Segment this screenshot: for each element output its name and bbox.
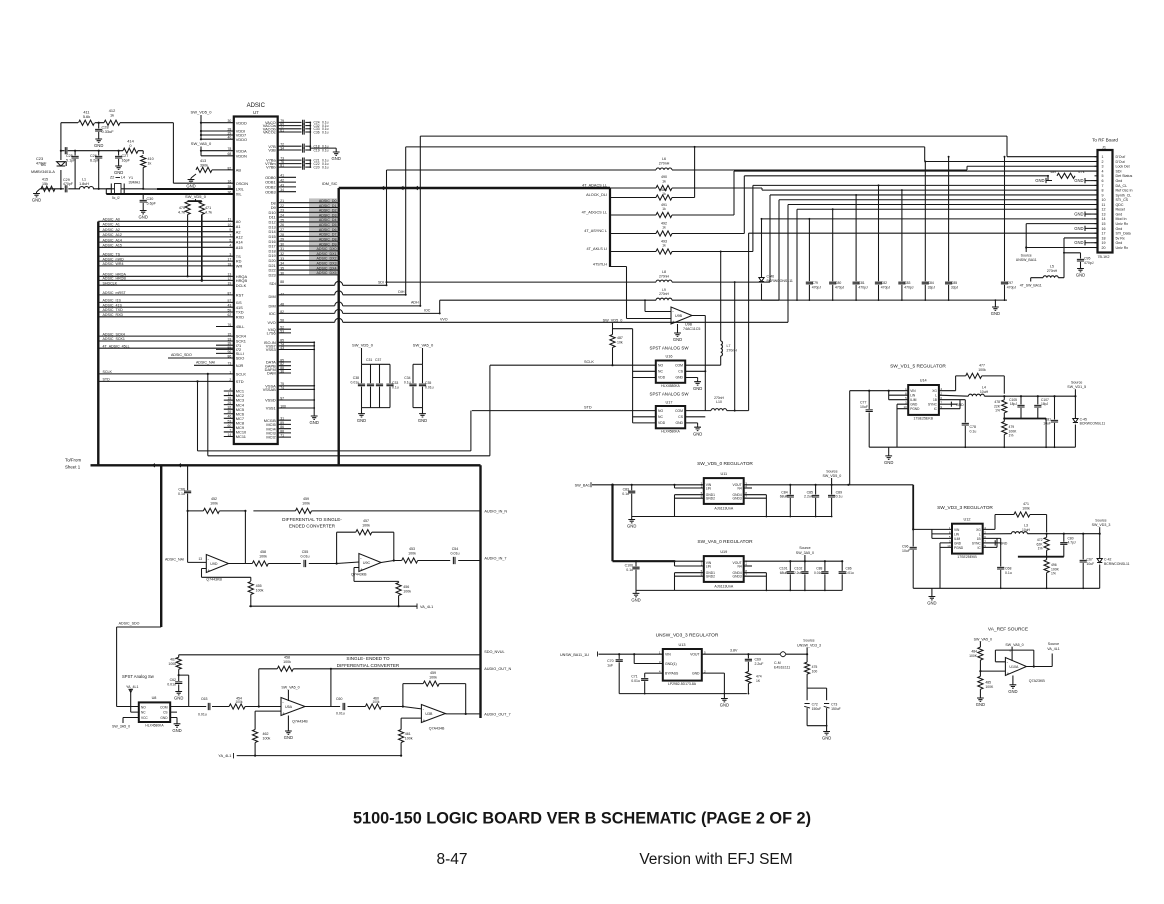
svg-text:GND: GND [332,156,341,161]
svg-text:D23: D23 [269,272,276,277]
row AUDIO_OUT_N with R458b [259,668,481,670]
ic U13 LP2982 [663,649,702,681]
U14 bottom ground rail [869,446,1075,448]
svg-text:6.2pF: 6.2pF [90,159,100,163]
svg-text:DIFFERENTIAL CONVERTER: DIFFERENTIAL CONVERTER [337,663,400,668]
bypass caps C18 C19 on V7B pins [278,145,302,147]
svg-text:GND2: GND2 [706,575,715,579]
svg-text:GND: GND [172,728,181,733]
capacitor C26 6.2pF [98,150,100,152]
vertical from U5A output junction to AUDIO_OUT_N row [330,669,332,707]
svg-text:NC: NC [658,415,663,419]
svg-text:A15: A15 [236,245,243,250]
capacitor C27 16pF to ground [118,150,120,152]
opamp U9D [188,561,207,563]
ground cap bank 1 [358,408,365,417]
capacitor C83 0.1uF input [631,485,633,491]
bus vertical to audio converters thick [160,465,162,627]
svg-text:8: 8 [1102,189,1104,193]
svg-text:GND: GND [693,431,702,436]
svg-text:HLX4580KA: HLX4580KA [145,724,164,728]
svg-text:0.1u: 0.1u [1005,571,1012,575]
svg-text:DIH: DIH [398,290,405,294]
U19 left pin ties [675,561,704,590]
svg-text:NO: NO [141,705,146,709]
capacitor C62 0.01uF [178,674,180,682]
svg-text:CS: CS [678,415,683,419]
divider R472 62k 1% [1046,533,1048,535]
svg-text:2.2uF: 2.2uF [804,495,813,499]
svg-text:0.01u: 0.01u [631,679,640,683]
svg-text:GND: GND [822,736,831,741]
svg-text:VSSD: VSSD [265,398,276,403]
inductor L7 270nH vertical [720,330,722,341]
svg-text:ADSIC_NAI: ADSIC_NAI [165,558,184,562]
svg-text:100k: 100k [210,501,218,505]
svg-text:0.1u: 0.1u [836,495,843,499]
svg-text:1uF: 1uF [607,663,613,667]
svg-text:GND: GND [1074,240,1083,245]
svg-text:0.1u: 0.1u [322,130,329,134]
bypass caps C24 C32 C33 C36 on VACO pins [278,121,302,123]
pin15 Univ Rx wire to source UNSW_BA11 [1026,224,1097,252]
svg-text:470pJ: 470pJ [904,286,914,290]
svg-text:C31: C31 [366,358,372,362]
wire XIL row thick [106,193,234,195]
sync pin gnd [939,403,952,405]
vertical from input junction to AUDIO_OUT_N row [258,669,260,707]
SCLK STD route to analog switches [198,365,490,456]
U3B plus input to R461 [401,718,421,729]
svg-text:100k: 100k [302,501,310,505]
svg-text:SYNC: SYNC [972,541,982,545]
opamp U5A [281,698,305,716]
resistor R493 1k on AKLS row to pin7 [610,251,656,253]
svg-text:ODB3: ODB3 [265,189,276,194]
svg-text:U10A: U10A [1009,665,1019,669]
svg-text:45LL: 45LL [236,324,245,329]
svg-text:AUDIO_IN_N: AUDIO_IN_N [484,509,507,513]
svg-text:PGND: PGND [910,407,920,411]
bus vertical right audio thick [479,465,481,718]
resistor R414 0 ohm [123,148,138,153]
resistor R485 100k [979,670,981,672]
svg-text:U9B: U9B [675,314,683,318]
svg-text:1k: 1k [662,244,666,248]
svg-text:413: 413 [200,159,206,163]
svg-text:QDC: QDC [1116,203,1124,207]
ground U12 rail [931,588,933,594]
svg-text:+: + [360,567,363,572]
svg-text:VSS1: VSS1 [266,406,276,411]
svg-text:ADSIC_NAI: ADSIC_NAI [196,361,215,365]
row ADSIC_NAI [194,364,234,366]
svg-text:100K: 100K [969,654,978,658]
svg-text:ADSIC: ADSIC [247,103,266,109]
resistor R460 100k [365,704,381,709]
data bus vertical thick [338,188,340,465]
ground cap bank 2 [419,408,426,417]
svg-text:13: 13 [198,557,202,561]
svg-text:487: 487 [617,336,623,340]
svg-text:10uH: 10uH [980,390,989,394]
svg-text:Q7443KB: Q7443KB [206,578,222,582]
svg-text:DA_CL: DA_CL [1116,184,1128,188]
wire ADSIC_SDO from bus to U8 [117,627,162,707]
svg-text:VACOc: VACOc [263,130,276,135]
svg-text:LIN: LIN [706,564,712,568]
U12 left pin ties [932,529,952,588]
capacitor C60 0.01uF [343,703,345,710]
left address bus vertical [97,222,99,466]
svg-text:C37: C37 [375,358,381,362]
capacitor C97 470pJ [1004,157,1006,282]
svg-text:RXD: RXD [236,314,244,319]
svg-text:1k: 1k [662,180,666,184]
svg-text:GND: GND [310,420,319,425]
wire SW_BA1 to U11 [592,484,704,486]
svg-text:GND: GND [284,735,293,740]
svg-text:100k: 100k [259,554,267,558]
svg-text:VOUT: VOUT [690,653,699,657]
svg-text:SW_3A5_0: SW_3A5_0 [796,551,814,555]
svg-text:2.2uF: 2.2uF [755,662,764,666]
svg-text:GND: GND [94,143,103,148]
svg-text:10uF: 10uF [860,405,868,409]
svg-text:NC: NC [141,711,146,715]
stubs V4Q L7S6 [278,329,291,333]
svg-text:L7: L7 [727,344,731,348]
svg-text:VIN: VIN [665,653,671,657]
svg-text:Lock Det: Lock Det [1116,165,1130,169]
wire UNSW input [599,653,663,655]
svg-text:L: L [979,532,981,536]
capacitor C81 470pJ [855,195,857,281]
svg-text:NJR: NJR [236,363,244,368]
capacitor C54 0.01uF [453,557,455,564]
svg-text:V3B: V3B [268,148,276,153]
svg-text:DIM: DIM [269,304,276,309]
virtual ground rail VA_4L1 lower [237,755,401,757]
resistor R462 100k to rail [253,730,258,743]
svg-text:SCLK: SCLK [236,372,247,377]
svg-text:VIN: VIN [910,389,916,393]
svg-text:100k: 100k [408,551,416,555]
svg-text:270nH: 270nH [727,349,738,353]
capacitor C68 0.1uF [997,567,1004,569]
wire from L8 row down to U17 COM row [734,282,736,411]
inductor L5 270nH [1043,276,1058,278]
capacitor C77 10uF input [868,391,870,409]
svg-text:18: 18 [1102,236,1106,240]
svg-text:0.1u: 0.1u [970,429,977,433]
row 4TSTLH to opamp U9B input [610,267,671,319]
svg-text:Univ Rx: Univ Rx [1116,222,1129,226]
svg-text:VVO: VVO [440,317,448,321]
U19 right GND pins to rail [744,573,767,591]
svg-text:100k: 100k [236,700,243,704]
svg-text:SW_VD5_0: SW_VD5_0 [823,474,842,478]
svg-text:BCRWCONSL11: BCRWCONSL11 [767,279,793,283]
capacitor C23 470pF series [65,147,67,154]
svg-text:VSS3: VSS3 [266,347,276,352]
svg-text:LIN: LIN [706,486,712,490]
svg-text:1k: 1k [148,162,152,166]
svg-text:STI_CS: STI_CS [1116,198,1129,202]
svg-text:270nH: 270nH [1047,269,1058,273]
svg-text:+: + [282,711,285,716]
svg-text:C83: C83 [623,488,629,492]
svg-text:C36: C36 [314,130,320,134]
pin18 5vRx path via L5 [1058,238,1097,278]
svg-text:Gnd: Gnd [1116,212,1123,216]
divider mid rail thick [1004,418,1046,420]
svg-text:4T_SW_BA11: 4T_SW_BA11 [1020,284,1042,288]
svg-text:C27: C27 [122,154,129,158]
capacitor C102 2.2uF [804,561,806,571]
svg-text:1.8uH: 1.8uH [79,182,89,186]
signal block vertical thick [609,188,611,267]
capacitor C71 0.01uF bypass [645,673,663,678]
U8 right CS GND [170,712,177,722]
ground stub pin16 [1085,226,1091,231]
svg-text:LP2982-5D173-8A: LP2982-5D173-8A [668,682,697,686]
svg-text:16pF: 16pF [122,159,131,163]
resistor R488 1k on ALOCK row jog to pin2 [610,197,656,199]
svg-text:LIN: LIN [954,532,960,536]
svg-text:10uF: 10uF [1043,422,1051,426]
svg-text:N4: N4 [737,564,741,568]
svg-text:U12: U12 [964,517,971,521]
svg-text:GND: GND [418,418,427,423]
svg-text:12: 12 [1102,208,1106,212]
svg-text:Q7A23KB: Q7A23KB [1029,679,1046,683]
svg-text:0.1u: 0.1u [178,492,185,496]
svg-text:5c_i2: 5c_i2 [112,196,120,200]
row SDO_NVUL feedback top [179,654,481,656]
svg-text:0.01u: 0.01u [336,712,345,716]
svg-text:VDD: VDD [658,376,666,380]
svg-text:WR: WR [236,264,243,269]
svg-text:ILIM: ILIM [910,398,917,402]
svg-text:100K: 100K [985,685,994,689]
svg-text:3: 3 [1102,165,1104,169]
svg-text:L1: L1 [82,178,86,182]
svg-text:18pJ: 18pJ [1010,402,1018,406]
audio in N row with R452 R459 [188,510,481,512]
svg-text:C100: C100 [625,564,633,568]
U10A feedback loop [995,650,1033,666]
wire top row oscillator [61,123,234,184]
svg-text:10k: 10k [617,341,623,345]
svg-text:4T_ADGCS LL: 4T_ADGCS LL [582,211,607,215]
svg-text:YA_4L1: YA_4L1 [218,754,231,758]
row VVO long to pin11 [278,321,335,323]
svg-text:L4: L4 [121,176,125,180]
capacitor C86 0.01uF [841,561,843,571]
U14 1B IC pins to C78 [939,400,965,423]
svg-text:10uF: 10uF [1087,562,1095,566]
capacitor C88 0.01uF [824,561,826,571]
opamp U9B minus input wire from L9 row [645,300,671,311]
capacitor C82 470pJ [878,185,880,281]
svg-text:Univ Rx: Univ Rx [1116,246,1129,250]
wire VD1_5 input [850,390,909,392]
svg-text:SW_VD1_5: SW_VD1_5 [1067,385,1086,389]
svg-text:UNSW_VD3_3: UNSW_VD3_3 [797,643,821,647]
row L6 270nH to connector pin3 [387,166,1098,170]
resistor R489 4.7k on pin5 with ground tap [1057,173,1075,178]
svg-text:CS: CS [678,370,683,374]
svg-text:SW_VA5_0: SW_VA5_0 [191,141,212,146]
svg-text:GND: GND [910,403,918,407]
svg-text:GND: GND [720,703,729,708]
divider R479 100k 1% [1003,419,1005,422]
feedback row R459b over U3B [403,684,466,714]
svg-text:U9B: U9B [685,323,693,327]
svg-text:GND: GND [954,541,962,545]
svg-text:4.7k: 4.7k [1078,170,1085,174]
svg-text:270nH: 270nH [659,292,669,296]
svg-text:+: + [1007,671,1010,676]
wire VD3_3 input from VD5_0 source [848,484,913,486]
ground rail U19 [636,589,842,591]
capacitor C96 10uF input [912,529,914,546]
U17 COM via L10 270nH [685,410,711,412]
svg-text:68uF: 68uF [780,571,788,575]
svg-text:To/From: To/From [65,458,81,463]
opamp U9C [359,554,381,572]
svg-text:471: 471 [205,206,211,210]
svg-text:Y1: Y1 [129,176,134,180]
capacitor C55 0.01uF [304,560,306,567]
svg-text:ADSIC_SDO: ADSIC_SDO [119,622,140,626]
svg-text:U3B: U3B [425,712,433,716]
svg-text:5v Rx: 5v Rx [1116,236,1125,240]
svg-text:GND: GND [1074,212,1083,217]
decoupling capacitor rail [762,299,1008,301]
row STD into U17 [472,410,656,412]
svg-text:VA_4L1: VA_4L1 [420,605,433,609]
resistor R413 390k to AB pin [191,174,196,178]
svg-text:470pJ: 470pJ [858,286,868,290]
capacitor C67 10uF output [1082,533,1084,535]
divider mid rail thick U12 [1018,556,1064,558]
svg-text:17: 17 [1102,232,1106,236]
svg-text:0.01u: 0.01u [301,554,310,558]
svg-text:SW_VA5_0: SW_VA5_0 [1005,643,1023,647]
ground U14 rail [888,447,890,454]
svg-text:U7: U7 [253,110,259,115]
svg-text:ADH: ADH [411,301,419,305]
U11 right GND pins to rail [744,495,767,517]
svg-text:UNSW_BA11_1LI: UNSW_BA11_1LI [560,653,589,657]
ground C72 C73 [826,726,828,730]
cap bank C34 C35 [413,363,423,365]
sheet 1 interconnect bus thick [91,464,481,466]
svg-text:GND3: GND3 [733,575,742,579]
svg-text:100k: 100k [405,736,413,740]
svg-text:MC11: MC11 [236,434,246,439]
svg-text:8-47: 8-47 [436,851,467,868]
svg-text:C20: C20 [314,165,320,169]
ground R485 [977,697,984,702]
row IOC from U7 up to L9 row [278,312,335,314]
row mod-in pin14 [762,218,1098,220]
ground U5A [287,716,289,730]
row ADSIC_SDO [168,357,234,359]
svg-text:SW_BA1: SW_BA1 [575,483,590,487]
wire SW_BA1 thick down to VA5_0 [611,485,613,561]
svg-text:17SE25EKB: 17SE25EKB [957,555,977,559]
svg-text:4T_ASYNC L: 4T_ASYNC L [584,229,607,233]
svg-text:5: 5 [1102,174,1104,178]
svg-text:VDDN: VDDN [236,153,247,158]
svg-text:2.2uF: 2.2uF [794,571,802,575]
U17 NC VDD wires [633,378,656,423]
resistor R415 15k [41,186,55,191]
svg-text:489: 489 [1050,170,1056,174]
svg-text:0.01u: 0.01u [425,385,434,389]
svg-text:GND(1): GND(1) [665,662,677,666]
svg-text:AB: AB [236,168,242,173]
svg-text:VA_4L1: VA_4L1 [1047,647,1060,651]
svg-text:NO: NO [658,364,663,368]
svg-text:5.6pF: 5.6pF [147,202,157,206]
top row 2 to connector pin2 [406,147,1098,162]
wire crystal to XIL [106,189,111,194]
capacitor C66 0.1uF from bus [187,465,189,490]
ic U14 17SE25EKB [908,385,939,415]
ic U19 AJS113UnA [704,556,744,582]
svg-text:DIM: DIM [269,294,276,299]
capacitor C28 0.33uF [98,122,100,124]
svg-text:10: 10 [1102,198,1106,202]
svg-text:470pJ: 470pJ [835,286,845,290]
svg-text:NO: NO [658,409,663,413]
svg-text:6: 6 [1102,179,1104,183]
svg-text:1%: 1% [995,409,1000,413]
svg-text:SDI: SDI [1116,169,1122,173]
svg-text:470pF: 470pF [36,162,47,166]
bus entry arrows on ADACS row [381,186,385,190]
bus arrow junctions [151,463,155,467]
svg-text:C77: C77 [860,401,866,405]
svg-text:AUDIO_OUT_7: AUDIO_OUT_7 [484,713,510,717]
U11 VOUT row [744,484,849,486]
svg-text:GND: GND [174,696,183,701]
svg-text:U17: U17 [666,401,673,405]
U13 ground rail [619,693,747,695]
inductor L9 270nH row to pin10 [440,299,656,301]
svg-text:MMBV3401LA: MMBV3401LA [31,170,55,174]
wire input branch down to VD5_0 source [849,391,851,485]
row SCLK into U16 [490,364,656,366]
svg-text:0.1u: 0.1u [322,165,329,169]
svg-text:0.1u: 0.1u [322,148,329,152]
stubs DATA GAPB DAFM DAM [278,362,291,373]
U16 right pins [685,371,705,379]
U5A output row C60 R460 [305,707,421,709]
svg-text:L: L [935,394,937,398]
svg-text:C19: C19 [314,148,320,152]
svg-text:GND: GND [675,376,683,380]
svg-text:XG: XG [976,528,981,532]
capacitor C100 0.1uF input [635,561,637,566]
svg-text:CS: CS [163,711,167,715]
svg-text:Mod In: Mod In [1116,217,1127,221]
capacitor C84 68uF [789,485,791,495]
